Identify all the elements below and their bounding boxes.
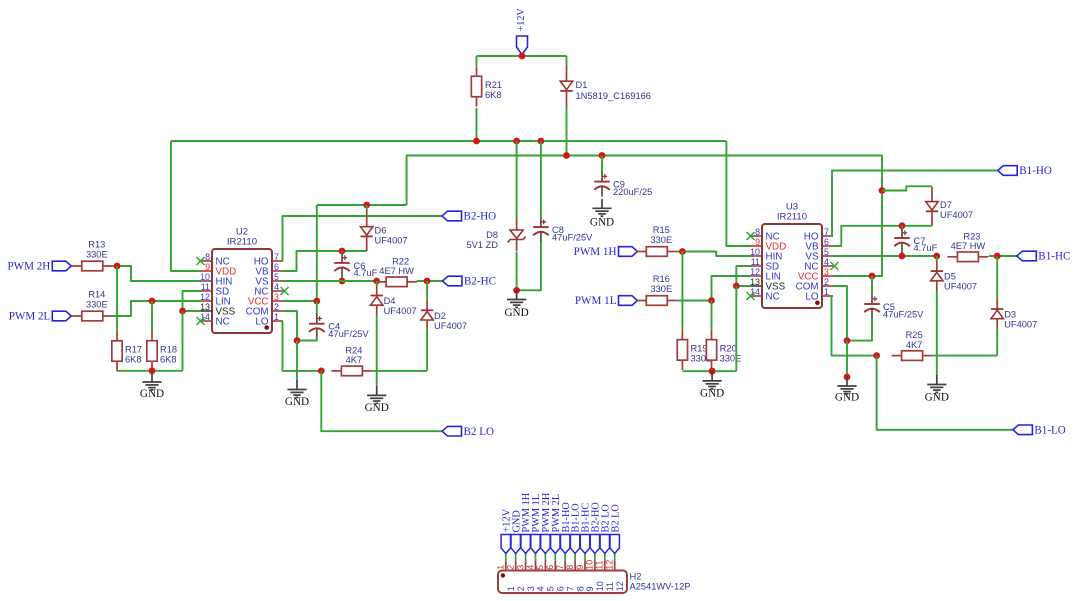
wire D3 bottom xyxy=(996,329,998,356)
svg-text:D5: D5 xyxy=(944,272,956,282)
wire C8 bottom xyxy=(517,242,541,290)
wire R19 drop xyxy=(681,252,683,330)
svg-text:1: 1 xyxy=(824,287,829,297)
svg-text:B2 LO: B2 LO xyxy=(610,504,621,533)
wire VSS to gnd rail xyxy=(182,311,184,371)
svg-text:8: 8 xyxy=(755,227,760,237)
svg-text:NC: NC xyxy=(766,291,780,302)
svg-text:D4: D4 xyxy=(384,296,396,306)
diode D3 xyxy=(996,256,998,299)
wire C4 bottom xyxy=(297,337,317,341)
wire HO to B1-HO xyxy=(832,171,998,237)
svg-text:5: 5 xyxy=(274,272,279,282)
svg-text:R20: R20 xyxy=(720,343,737,353)
junction D5 top xyxy=(933,253,940,260)
svg-text:B2 LO: B2 LO xyxy=(464,426,495,438)
svg-text:330E: 330E xyxy=(86,249,108,259)
wire +12V row xyxy=(477,55,567,57)
svg-text:12: 12 xyxy=(750,267,760,277)
svg-text:7: 7 xyxy=(565,586,575,591)
svg-text:D3: D3 xyxy=(1004,310,1016,320)
svg-text:R16: R16 xyxy=(653,274,670,284)
wire VB to C6/D6 xyxy=(283,251,367,271)
svg-text:7: 7 xyxy=(824,227,829,237)
resistor R21 xyxy=(471,76,481,97)
wire R23 right xyxy=(989,255,1017,257)
ground U3 COM xyxy=(846,377,848,387)
svg-text:1: 1 xyxy=(506,586,516,591)
diode D5 xyxy=(936,256,938,261)
svg-text:2: 2 xyxy=(274,302,279,312)
svg-text:B1-HO: B1-HO xyxy=(1019,165,1052,177)
pin 3 H2 PWM 1H xyxy=(525,554,527,562)
svg-text:330E: 330E xyxy=(650,235,672,245)
wire R18 drop xyxy=(151,301,153,331)
junction D3 top xyxy=(994,253,1001,260)
wire D7 top xyxy=(882,186,932,190)
svg-text:11: 11 xyxy=(201,282,210,292)
svg-text:11: 11 xyxy=(751,257,760,267)
svg-text:R14: R14 xyxy=(88,290,105,300)
diode D2 xyxy=(426,281,428,301)
wire VS row xyxy=(283,280,377,282)
junction gnd rail xyxy=(149,367,156,374)
svg-text:47uF/25V: 47uF/25V xyxy=(328,329,369,339)
wire D1 bottom xyxy=(566,101,568,107)
capacitor C9 xyxy=(601,172,603,182)
svg-text:5: 5 xyxy=(546,586,556,591)
svg-text:R23: R23 xyxy=(963,231,980,241)
svg-text:PWM 1L: PWM 1L xyxy=(575,295,617,307)
svg-text:2: 2 xyxy=(824,277,829,287)
wire COM to gnd xyxy=(296,341,298,382)
svg-text:13: 13 xyxy=(750,277,760,287)
svg-text:9: 9 xyxy=(755,237,760,247)
svg-text:330E: 330E xyxy=(720,353,742,363)
svg-text:5: 5 xyxy=(535,565,545,570)
junction C6 top xyxy=(339,248,346,255)
resistor R19 xyxy=(677,340,687,361)
junction R16 out xyxy=(708,297,715,304)
pin 7 H2 B1-HO xyxy=(564,554,566,562)
wire LO U3 xyxy=(832,296,877,356)
svg-text:R24: R24 xyxy=(345,345,362,355)
svg-text:UF4007: UF4007 xyxy=(434,321,467,331)
svg-text:6K8: 6K8 xyxy=(485,90,502,100)
svg-text:PWM 2L: PWM 2L xyxy=(9,311,51,323)
pin 9 H2 B1-HC xyxy=(584,554,586,562)
resistor R20 xyxy=(706,340,716,361)
capacitor C7 xyxy=(901,226,903,228)
junction VSS xyxy=(179,308,186,315)
svg-text:47uF/25V: 47uF/25V xyxy=(883,309,924,319)
wire VS row U3 xyxy=(833,255,937,257)
svg-text:R21: R21 xyxy=(485,80,502,90)
svg-text:PWM 2H: PWM 2H xyxy=(7,261,50,273)
wire C9 top xyxy=(601,156,603,173)
svg-text:GND: GND xyxy=(140,388,164,400)
svg-text:12: 12 xyxy=(605,560,615,570)
junction VCC-C5 xyxy=(869,273,876,280)
resistor R23 xyxy=(957,252,978,262)
ground R19/R20 xyxy=(711,371,713,381)
wire COM U3 to gnd xyxy=(846,341,848,377)
capacitor C5 xyxy=(871,276,873,294)
junction LO net U3 xyxy=(873,352,880,359)
svg-text:D2: D2 xyxy=(434,311,446,321)
resistor R14 xyxy=(82,311,103,321)
svg-text:330E: 330E xyxy=(650,284,672,294)
wire D8 top xyxy=(516,141,518,218)
svg-text:11: 11 xyxy=(605,582,615,591)
svg-text:10: 10 xyxy=(200,272,210,282)
ground U2 COM xyxy=(296,380,298,390)
junction D4 top xyxy=(373,278,380,285)
junction R14 out xyxy=(149,298,156,305)
svg-text:UF4007: UF4007 xyxy=(384,306,417,316)
pin 10 H2 B2-HO xyxy=(594,554,596,562)
ground D8/C8 xyxy=(516,290,518,300)
junction D8-C8 gnd xyxy=(513,287,520,294)
svg-text:7: 7 xyxy=(274,252,279,262)
wire R21 top xyxy=(476,56,478,66)
svg-text:4: 4 xyxy=(824,257,829,267)
wire D7 bottom xyxy=(931,211,933,226)
svg-text:GND: GND xyxy=(285,396,309,408)
pin 12 H2 B2 LO xyxy=(614,554,616,562)
pin 1 H2 +12V xyxy=(505,554,507,562)
wire R17 drop xyxy=(116,266,118,331)
svg-text:220uF/25: 220uF/25 xyxy=(613,187,652,197)
svg-text:UF4007: UF4007 xyxy=(1004,320,1037,330)
wire LO U2 xyxy=(283,321,322,371)
svg-text:5: 5 xyxy=(824,247,829,257)
svg-text:3: 3 xyxy=(274,292,279,302)
svg-text:NC: NC xyxy=(216,316,230,327)
wire VDD into U3 xyxy=(726,141,751,246)
wire R21 bottom xyxy=(476,108,478,141)
junction C9-VCC bus xyxy=(599,152,606,159)
svg-text:4.7uF: 4.7uF xyxy=(914,243,938,253)
svg-text:GND: GND xyxy=(925,392,949,404)
svg-text:12: 12 xyxy=(615,581,625,591)
svg-text:3: 3 xyxy=(515,565,525,570)
svg-text:B1-HC: B1-HC xyxy=(1038,251,1070,263)
svg-text:D6: D6 xyxy=(375,226,387,236)
svg-text:4E7 HW: 4E7 HW xyxy=(951,241,986,251)
svg-text:8: 8 xyxy=(205,252,210,262)
svg-text:4K7: 4K7 xyxy=(346,355,363,365)
svg-text:8: 8 xyxy=(565,565,575,570)
wire HO to B2-HO xyxy=(283,216,443,261)
wire R25 right to D3 xyxy=(933,355,998,357)
label PWM 2L xyxy=(52,311,71,321)
wire D2 bottom xyxy=(426,330,428,371)
svg-text:R17: R17 xyxy=(125,345,142,355)
wire VCC bus xyxy=(407,156,882,277)
svg-text:GND: GND xyxy=(835,392,859,404)
junction D2 top xyxy=(424,278,431,285)
svg-text:1: 1 xyxy=(496,565,506,570)
wire R14 to LIN xyxy=(113,301,201,316)
svg-text:B1-LO: B1-LO xyxy=(1034,424,1065,436)
op-amp U3 IR2110 xyxy=(762,224,822,308)
wire C6 bottom xyxy=(341,276,343,281)
pin 4 H2 PWM 1L xyxy=(535,554,537,562)
svg-text:R18: R18 xyxy=(160,345,177,355)
junction C8-bus xyxy=(538,138,545,145)
svg-text:4.7uF: 4.7uF xyxy=(354,268,378,278)
ground C9 xyxy=(601,199,603,209)
diode D7 xyxy=(931,187,933,202)
svg-text:GND: GND xyxy=(365,402,389,414)
svg-text:B2-HC: B2-HC xyxy=(464,276,496,288)
junction D7 tap xyxy=(879,187,886,194)
junction C7 top xyxy=(899,222,906,229)
capacitor C4 xyxy=(316,301,318,314)
svg-text:6: 6 xyxy=(556,586,566,591)
junction +12V xyxy=(519,53,526,60)
svg-text:R13: R13 xyxy=(88,240,105,250)
label B1-HO xyxy=(998,166,1018,176)
wire C7 bottom xyxy=(901,251,903,256)
junction D8-bus xyxy=(513,138,520,145)
svg-text:GND: GND xyxy=(504,307,528,319)
wire VCC local net xyxy=(317,204,407,206)
resistor R17 xyxy=(112,341,122,362)
junction R13 out xyxy=(114,263,121,270)
svg-text:3: 3 xyxy=(526,586,536,591)
svg-text:2: 2 xyxy=(506,565,516,570)
label PWM 2H xyxy=(52,261,71,271)
svg-text:IR2110: IR2110 xyxy=(227,237,257,248)
junction COM-C4 xyxy=(294,337,301,344)
wire COM U3 xyxy=(833,286,847,341)
wire gnd rail left xyxy=(117,370,183,372)
svg-text:10: 10 xyxy=(750,247,760,257)
wire R22 right xyxy=(417,280,443,282)
wire D4 to gnd xyxy=(376,315,378,386)
pin 8 H2 B1-LO xyxy=(574,554,576,562)
connector H2 body xyxy=(498,571,627,594)
label B1-LO xyxy=(1013,425,1033,435)
pin1 marker H2 xyxy=(501,573,505,577)
ground D5 xyxy=(936,375,938,385)
svg-text:12: 12 xyxy=(200,292,210,302)
svg-text:PWM 1H: PWM 1H xyxy=(574,246,617,258)
svg-text:7: 7 xyxy=(555,565,565,570)
svg-text:330E: 330E xyxy=(86,299,108,309)
junction gnd rail U3 xyxy=(709,368,716,375)
junction R21-bus xyxy=(473,138,480,145)
wire LIN U3 xyxy=(712,276,752,301)
junction COM gnd xyxy=(844,374,851,381)
op-amp U2 IR2110 xyxy=(212,249,272,333)
svg-text:6: 6 xyxy=(545,565,555,570)
svg-text:1: 1 xyxy=(274,312,279,322)
svg-text:B2-HO: B2-HO xyxy=(464,211,497,223)
svg-text:8: 8 xyxy=(575,586,585,591)
wire R13 to HIN xyxy=(113,266,201,281)
wire SD-VSS xyxy=(183,291,202,311)
label PWM 1L xyxy=(619,296,638,306)
diode D4 xyxy=(376,281,378,286)
svg-text:GND: GND xyxy=(700,387,724,399)
wire R16 out xyxy=(677,300,711,302)
junction VSS U3 xyxy=(733,283,740,290)
wire R15 to HIN xyxy=(677,252,751,257)
pin 2 H2 GND xyxy=(515,554,517,562)
wire D5 to gnd xyxy=(936,291,938,375)
wire R20 drop xyxy=(711,301,713,330)
wire C8 top xyxy=(540,141,542,217)
svg-text:4E7 HW: 4E7 HW xyxy=(379,266,414,276)
svg-text:4K7: 4K7 xyxy=(906,340,923,350)
svg-text:UF4007: UF4007 xyxy=(940,210,973,220)
svg-text:UF4007: UF4007 xyxy=(944,282,977,292)
svg-text:D7: D7 xyxy=(940,200,952,210)
svg-text:R15: R15 xyxy=(653,225,670,235)
wire VDD bus xyxy=(171,140,726,142)
diode D6 xyxy=(366,205,368,210)
svg-text:4: 4 xyxy=(525,565,535,570)
svg-text:9: 9 xyxy=(585,586,595,591)
junction LO net xyxy=(318,368,325,375)
wire VB U3 xyxy=(833,226,932,246)
label B2-HC xyxy=(443,276,463,286)
capacitor C8 xyxy=(540,217,542,227)
wire VDD into U2 xyxy=(171,141,201,271)
wire B2 LO drop xyxy=(321,371,442,431)
svg-text:47uF/25V: 47uF/25V xyxy=(552,232,593,242)
svg-text:9: 9 xyxy=(205,262,210,272)
label PWM 1H xyxy=(619,247,638,257)
junction C6 bottom xyxy=(339,278,346,285)
label B2 LO xyxy=(442,426,462,436)
svg-text:+12V: +12V xyxy=(516,8,527,32)
wire C5 bottom xyxy=(847,318,872,341)
svg-text:D1: D1 xyxy=(576,80,588,90)
resistor R16 xyxy=(646,296,667,306)
zener D8 xyxy=(516,218,518,230)
svg-text:6: 6 xyxy=(824,237,829,247)
resistor R13 xyxy=(82,261,103,271)
pin 11 H2 B2 LO xyxy=(604,554,606,562)
wire D8 bottom xyxy=(516,252,518,290)
svg-text:6K8: 6K8 xyxy=(160,355,177,365)
wire D6 bottom xyxy=(366,246,368,251)
pin 6 H2 PWM 2L xyxy=(554,554,556,562)
diode D1 xyxy=(566,56,568,67)
svg-text:H2: H2 xyxy=(630,572,642,582)
svg-text:4: 4 xyxy=(536,586,546,591)
svg-text:2: 2 xyxy=(516,586,526,591)
wire VSS U3 to gnd rail xyxy=(735,286,737,371)
svg-text:IR2110: IR2110 xyxy=(777,212,807,223)
svg-text:R22: R22 xyxy=(392,256,409,266)
svg-text:9: 9 xyxy=(575,565,585,570)
power +12V xyxy=(517,36,528,55)
resistor R15 xyxy=(646,247,667,257)
svg-text:UF4007: UF4007 xyxy=(375,236,408,246)
ground D4 xyxy=(376,386,378,396)
svg-text:6: 6 xyxy=(274,262,279,272)
svg-text:11: 11 xyxy=(595,560,605,569)
svg-text:GND: GND xyxy=(590,217,614,229)
wire VCC U3 xyxy=(833,275,882,277)
svg-text:10: 10 xyxy=(595,581,605,591)
wire R24 right to D2 xyxy=(372,370,427,372)
svg-text:1N5819_C169166: 1N5819_C169166 xyxy=(576,91,651,101)
label B1-HC xyxy=(1017,251,1037,261)
wire SD-VSS U3 xyxy=(736,266,751,286)
ground R17/R18 xyxy=(151,373,153,383)
svg-text:13: 13 xyxy=(200,302,210,312)
resistor R18 xyxy=(147,341,157,362)
junction D1-VCC bus xyxy=(563,152,570,159)
label B2-HO xyxy=(442,211,462,221)
wire COM U2 xyxy=(283,311,297,341)
junction C7 bottom xyxy=(899,253,906,260)
wire VCC pin U2 xyxy=(283,300,317,302)
resistor R25 xyxy=(902,351,923,361)
svg-text:D8: D8 xyxy=(486,230,498,240)
svg-text:R25: R25 xyxy=(906,330,923,340)
junction R15 out xyxy=(679,248,686,255)
svg-text:10: 10 xyxy=(585,560,595,570)
capacitor C6 xyxy=(341,251,343,253)
svg-text:6K8: 6K8 xyxy=(125,355,142,365)
svg-text:3: 3 xyxy=(824,267,829,277)
resistor R24 xyxy=(341,366,362,376)
svg-text:A2541WV-12P: A2541WV-12P xyxy=(630,582,691,592)
svg-text:4: 4 xyxy=(274,282,279,292)
junction D6 top xyxy=(363,202,370,209)
junction COM-C5 xyxy=(844,337,851,344)
junction VCC U2 xyxy=(313,298,320,305)
resistor R22 xyxy=(386,277,407,287)
wire B1-LO drop xyxy=(877,356,1013,430)
svg-text:R19: R19 xyxy=(691,343,708,353)
svg-text:5V1 ZD: 5V1 ZD xyxy=(466,240,498,250)
wire gnd rail U3 xyxy=(682,370,736,372)
pin 5 H2 PWM 2H xyxy=(544,554,546,562)
